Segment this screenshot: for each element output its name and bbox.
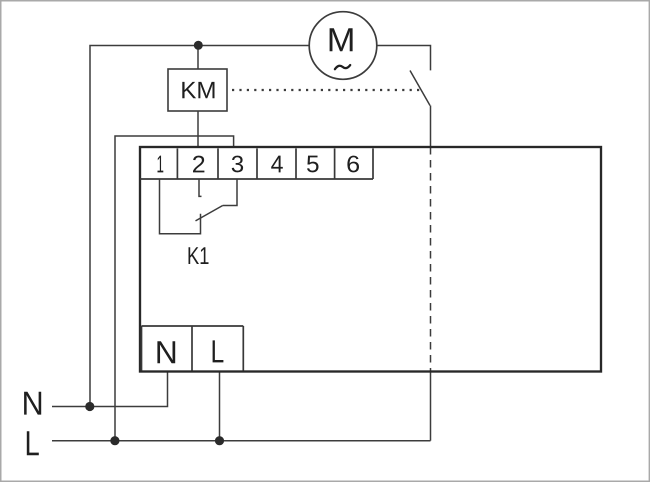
wire N terminal down [52,372,168,407]
motor M1 tilde [335,65,350,69]
motor M1 letter [330,28,353,51]
relay contact K1 blade [196,206,223,221]
node junction L2 [215,436,224,445]
device outline [140,147,601,372]
wire L terminal down [219,372,221,441]
wire switch to L line [430,372,432,441]
terminal N label [157,341,175,363]
wire dashed through device [430,147,432,372]
relay contact K1 NC stub terminal 2 [199,179,202,196]
wire KM coil to terminal 2 [197,111,199,147]
wire terminal 3 loop [115,136,234,441]
net N label [24,392,41,415]
terminal 4 label [271,156,283,173]
switch KM contact blade [410,71,430,106]
wire switch to device [430,106,432,148]
relay contact K1 NO wire to terminal 3 [223,179,237,206]
wire KM coil top [197,46,199,70]
node junction L1 [110,436,119,445]
terminal N box [142,326,244,371]
terminal strip 1-6 [140,148,373,179]
contactor coil KM label [182,82,214,98]
terminal 5 label [307,156,319,173]
motor M1 circle [309,12,377,80]
contactor coil KM box [168,69,227,111]
wire top horizontal right [377,46,431,71]
wire top horizontal left [90,46,309,407]
terminal L label [213,340,224,362]
terminal 3 label [232,156,243,173]
terminal 1 label [158,156,164,173]
dotted link KM to switch [232,89,421,91]
node junction top [194,41,203,50]
relay contact K1 common wire [160,179,201,234]
wire L line [52,440,431,442]
terminal 2 label [193,156,204,173]
node junction N [85,402,94,411]
relay contact K1 label [189,247,209,264]
terminal 6 label [347,156,359,173]
net L label [27,431,39,455]
